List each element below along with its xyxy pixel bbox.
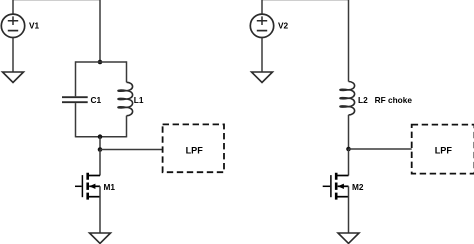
ground under V1 xyxy=(3,72,24,83)
wire tank bottom rail xyxy=(76,136,127,138)
svg-text:C1: C1 xyxy=(91,95,102,105)
svg-text:L2 RF choke: L2 RF choke xyxy=(358,95,412,105)
wire node to M2 drain xyxy=(348,149,350,176)
wire M1 source to ground xyxy=(99,186,101,233)
wire ind branch top xyxy=(126,61,128,82)
transistor M2 xyxy=(323,173,349,200)
svg-text:LPF: LPF xyxy=(435,146,453,156)
wire V2 top stub xyxy=(261,0,263,14)
ground under V2 xyxy=(252,72,273,83)
voltage source V2 xyxy=(250,14,273,37)
wire down to L2 xyxy=(348,0,350,82)
wire ind branch bottom xyxy=(126,116,128,138)
voltage source V1 xyxy=(1,14,24,37)
wire cap branch top xyxy=(75,61,77,96)
ground under M1 xyxy=(90,233,111,243)
wire node to M1 drain xyxy=(99,150,101,176)
svg-text:L1: L1 xyxy=(134,95,144,105)
inductor L2 xyxy=(340,82,355,115)
wire tank bottom to node xyxy=(99,137,101,150)
svg-text:LPF: LPF xyxy=(186,146,204,156)
wire cap branch bottom xyxy=(75,103,77,137)
wire V1 to ground xyxy=(12,38,14,73)
LPF block left xyxy=(163,124,224,172)
svg-text:M2: M2 xyxy=(352,182,364,192)
svg-text:M1: M1 xyxy=(104,182,116,192)
inductor L1 xyxy=(118,82,133,115)
wire M2 source to ground xyxy=(348,186,350,233)
capacitor C1 xyxy=(62,97,88,102)
svg-text:V2: V2 xyxy=(278,21,289,31)
wire to LPF left xyxy=(100,149,163,151)
wire down to tank xyxy=(99,0,101,62)
wire L2 bottom to node xyxy=(348,115,350,149)
ground under M2 xyxy=(338,233,359,243)
wire tank top rail xyxy=(76,61,127,63)
transistor M1 xyxy=(75,173,100,200)
wire V1 top stub xyxy=(12,0,14,14)
node tank top junction xyxy=(98,60,103,65)
wire top rail left xyxy=(13,0,100,1)
node LPF tap right xyxy=(346,147,351,152)
wire top rail right xyxy=(262,0,349,1)
wire to LPF right xyxy=(349,148,412,150)
LPF block right xyxy=(412,125,474,174)
node LPF tap left xyxy=(98,147,103,152)
node tank bottom junction xyxy=(98,134,103,139)
svg-text:V1: V1 xyxy=(29,21,40,31)
wire V2 to ground xyxy=(261,38,263,73)
